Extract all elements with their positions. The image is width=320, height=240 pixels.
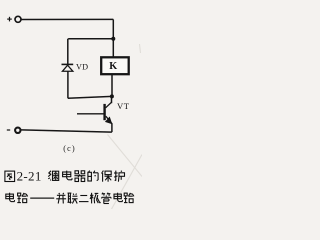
svg-text:VT: VT bbox=[117, 101, 130, 111]
svg-text:VD: VD bbox=[76, 63, 88, 72]
svg-text:K: K bbox=[109, 61, 117, 72]
svg-text:2-21: 2-21 bbox=[17, 168, 42, 183]
svg-text:(c): (c) bbox=[63, 144, 76, 153]
